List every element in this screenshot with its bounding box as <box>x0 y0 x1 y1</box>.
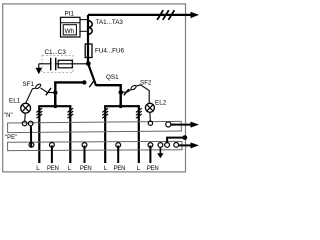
svg-text:"N": "N" <box>4 113 13 119</box>
svg-text:PEN: PEN <box>80 166 92 172</box>
svg-text:Wh: Wh <box>65 28 75 35</box>
svg-text:PEN: PEN <box>147 166 159 172</box>
svg-text:PI1: PI1 <box>65 10 75 17</box>
svg-text:PEN: PEN <box>114 166 126 172</box>
svg-text:EL1: EL1 <box>9 97 21 104</box>
svg-text:FU4...FU6: FU4...FU6 <box>95 48 125 55</box>
svg-text:QS1: QS1 <box>106 74 119 81</box>
svg-text:TA1...TA3: TA1...TA3 <box>96 19 124 26</box>
svg-text:PEN: PEN <box>47 166 59 172</box>
svg-text:EL2: EL2 <box>155 99 167 106</box>
svg-text:SF1: SF1 <box>23 81 35 88</box>
svg-text:"PE": "PE" <box>5 135 17 141</box>
